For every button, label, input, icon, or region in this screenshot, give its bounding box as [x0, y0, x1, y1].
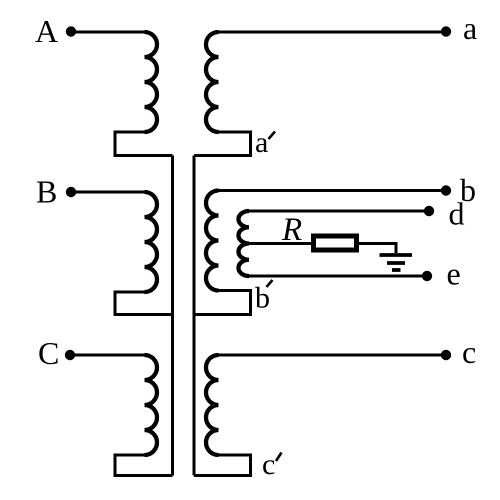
wire b lead — [219, 189, 447, 192]
tick b-prime — [267, 280, 273, 287]
svg-text:e: e — [447, 256, 461, 292]
wire C lead — [70, 354, 145, 357]
svg-text:d: d — [449, 196, 465, 232]
winding a secondary — [206, 32, 219, 132]
tick a-prime — [269, 132, 276, 140]
winding b secondary — [206, 191, 219, 291]
svg-text:c: c — [462, 334, 476, 370]
wire c winding bottom step — [194, 455, 251, 476]
wire c lead — [219, 354, 447, 357]
wire C winding bottom step — [115, 455, 173, 476]
wire a winding bottom step — [194, 132, 251, 156]
winding b tertiary — [238, 211, 249, 276]
svg-text:C: C — [38, 335, 59, 371]
wire b winding bottom step — [194, 291, 251, 315]
svg-text:a: a — [255, 126, 268, 159]
terminal a — [441, 26, 451, 36]
secondary neutral bus — [193, 156, 196, 476]
svg-text:c: c — [262, 448, 275, 481]
wire B winding bottom step — [115, 292, 173, 315]
terminal c — [441, 350, 451, 360]
svg-text:A: A — [35, 13, 58, 49]
terminal e — [422, 271, 432, 281]
wire A lead — [71, 31, 145, 34]
winding C primary — [145, 355, 158, 455]
primary neutral bus — [171, 156, 174, 476]
winding B primary — [145, 192, 158, 292]
svg-text:B: B — [36, 174, 57, 210]
wire a lead — [219, 31, 447, 34]
wire resistor to ground — [356, 244, 396, 254]
terminal C — [65, 350, 75, 360]
winding c secondary — [206, 355, 219, 455]
winding A primary — [145, 32, 158, 132]
terminal B — [66, 187, 76, 197]
wire A winding bottom step — [115, 132, 173, 156]
terminal A — [66, 26, 76, 36]
terminal b — [441, 185, 451, 195]
terminal d — [424, 206, 434, 216]
wire d lead — [249, 210, 429, 213]
ground — [380, 255, 413, 270]
resistor R — [314, 236, 357, 250]
wire tertiary tap to resistor — [249, 242, 314, 245]
svg-text:a: a — [463, 10, 477, 46]
tick c-prime — [276, 453, 282, 462]
wire e lead — [249, 275, 427, 278]
wire B lead — [71, 191, 145, 194]
